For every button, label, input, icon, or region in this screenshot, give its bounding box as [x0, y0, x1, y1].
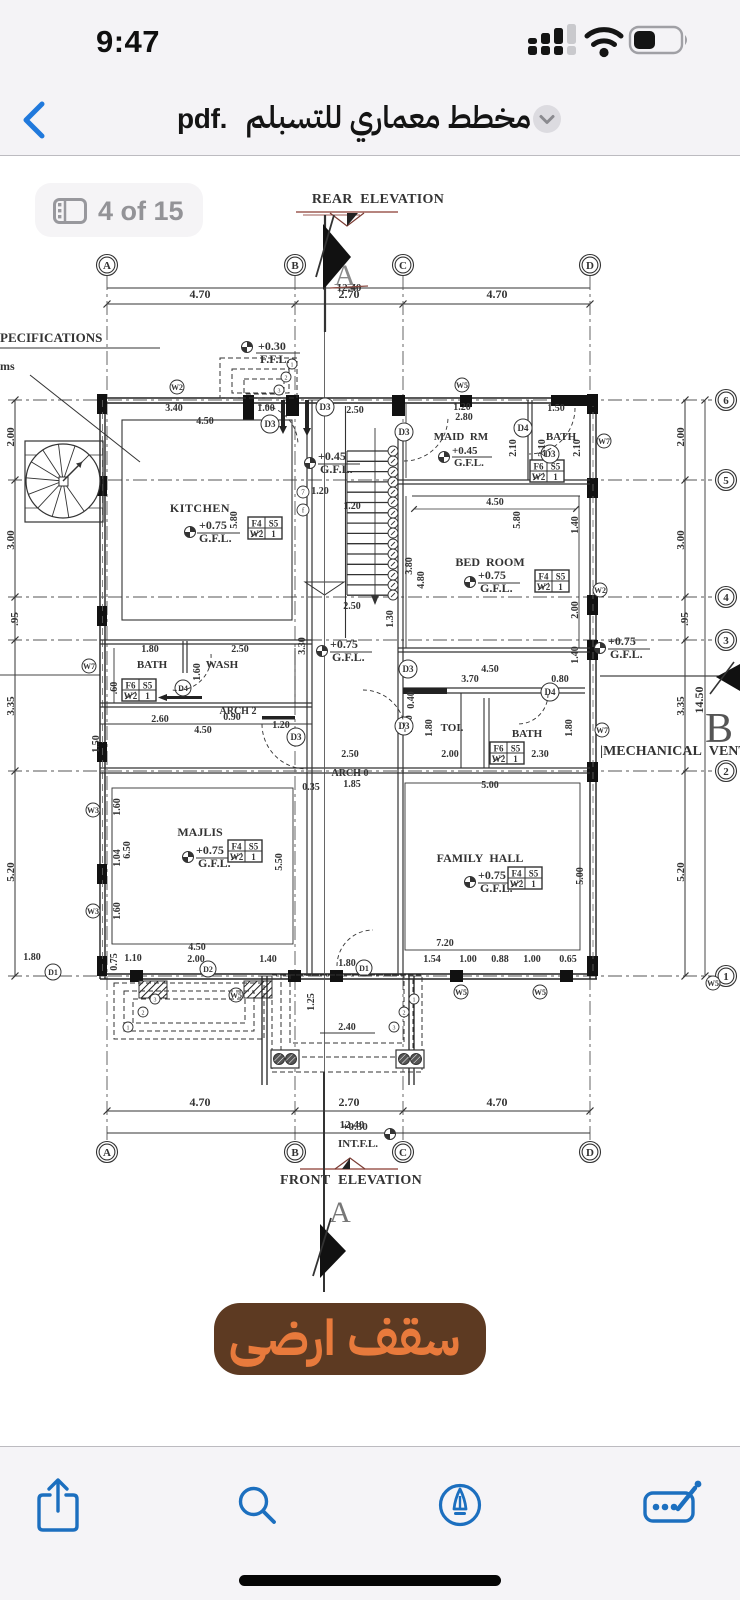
grid bubble 3 right	[716, 630, 737, 651]
columns bottom wall	[130, 970, 143, 982]
svg-text:A: A	[103, 1147, 111, 1159]
interior wall spine left x307	[306, 400, 308, 976]
svg-text:2: 2	[403, 1011, 406, 1017]
door leaf D4 bath	[166, 696, 202, 699]
svg-text:W5: W5	[707, 979, 719, 988]
svg-text:REAR ELEVATION: REAR ELEVATION	[312, 192, 444, 207]
grid bubble 2 right	[716, 761, 737, 782]
svg-text:3: 3	[154, 998, 157, 1004]
svg-text:2.70: 2.70	[339, 287, 360, 301]
svg-text:6: 6	[723, 395, 729, 407]
svg-text:2: 2	[142, 1011, 145, 1017]
svg-text:F4: F4	[539, 572, 549, 582]
svg-text:D4: D4	[545, 687, 556, 697]
svg-text:BATH: BATH	[137, 659, 168, 671]
left porch dashed steps	[114, 983, 264, 1039]
left porch hatched columns	[139, 981, 167, 998]
entry porch columns	[271, 1050, 299, 1068]
maid/bath partition	[527, 400, 529, 480]
grid line 6 horizontal	[8, 399, 712, 401]
svg-text:ms: ms	[0, 359, 15, 373]
grid bubble C bottom	[393, 1142, 414, 1163]
svg-text:1.25: 1.25	[306, 993, 317, 1011]
staircase treads	[347, 450, 397, 452]
svg-text:S5: S5	[249, 842, 259, 852]
section line A bottom	[323, 1072, 325, 1292]
status + navigation bar	[0, 0, 740, 156]
svg-text:ARCH 0: ARCH 0	[332, 768, 369, 779]
svg-text:1.40: 1.40	[259, 954, 277, 965]
spiral leader line	[30, 375, 140, 462]
door bubble D4 mid	[175, 680, 191, 696]
toi/bath top wall	[403, 687, 585, 689]
svg-text:S5: S5	[143, 681, 153, 691]
bedroom bottom wall	[398, 647, 590, 649]
columns right wall	[587, 394, 598, 414]
svg-text:F.F.L.: F.F.L.	[260, 352, 289, 366]
grid line A vertical	[106, 276, 108, 1141]
section arrow B	[716, 664, 740, 691]
svg-text:2.10: 2.10	[572, 439, 583, 457]
svg-text:1.00: 1.00	[459, 954, 477, 965]
svg-text:2.50: 2.50	[341, 749, 359, 760]
svg-text:D1: D1	[48, 968, 58, 977]
svg-text:4.70: 4.70	[487, 1095, 508, 1109]
svg-text:2.80: 2.80	[455, 412, 473, 423]
grid bubble 4 right	[716, 587, 737, 608]
svg-text:3.40: 3.40	[165, 403, 183, 414]
entry porch side walls	[261, 976, 263, 1085]
svg-text:2.50: 2.50	[346, 405, 364, 416]
svg-text:+0.75: +0.75	[330, 637, 358, 651]
markup icon	[437, 1482, 483, 1528]
svg-text:WASH: WASH	[206, 659, 239, 671]
section arrow A top	[323, 224, 351, 290]
svg-text:D3: D3	[265, 419, 276, 429]
svg-text:1.80: 1.80	[141, 644, 159, 655]
svg-text:MAJLIS: MAJLIS	[177, 825, 223, 839]
status icons	[520, 24, 700, 68]
bottom toolbar	[0, 1446, 740, 1600]
right dimension column	[684, 400, 686, 976]
svg-text:2.40: 2.40	[338, 1022, 356, 1033]
grid bubble 1 right	[716, 966, 737, 987]
right landing level	[595, 643, 606, 654]
svg-text:6.50: 6.50	[122, 841, 133, 859]
svg-text:D4: D4	[518, 423, 529, 433]
window bubbles bottom	[229, 988, 243, 1002]
svg-text:1: 1	[271, 529, 276, 539]
svg-text:W2: W2	[171, 383, 183, 392]
svg-text:3.70: 3.70	[461, 674, 479, 685]
grid line 4 horizontal	[8, 596, 712, 598]
grid bubble B bottom	[285, 1142, 306, 1163]
svg-text:B: B	[291, 260, 299, 272]
grid line B vertical	[294, 276, 296, 1141]
bath/wash inner outline	[113, 648, 115, 703]
orange page label badge	[214, 1303, 486, 1375]
page indicator pill 4 of 15	[35, 183, 203, 237]
svg-text:5.80: 5.80	[512, 511, 523, 529]
svg-text:4.70: 4.70	[487, 287, 508, 301]
stair hall level	[305, 458, 316, 469]
svg-text:D: D	[586, 260, 594, 272]
svg-text:C: C	[399, 260, 407, 272]
svg-text:.95: .95	[9, 612, 21, 626]
svg-text:+0.45: +0.45	[452, 445, 478, 457]
svg-text:F4: F4	[252, 519, 262, 529]
bath/wash partition stub	[182, 641, 184, 673]
svg-text:A: A	[103, 260, 111, 272]
svg-text:1.20: 1.20	[343, 501, 361, 512]
spiral staircase	[26, 444, 100, 518]
svg-text:+0.45: +0.45	[318, 449, 346, 463]
grid bubble C top	[393, 255, 414, 276]
bedroom inner side lines	[405, 496, 407, 648]
rear steps numbers	[287, 359, 297, 369]
window bubbles top	[170, 380, 184, 394]
svg-text:D4: D4	[178, 684, 188, 693]
svg-text:5.20: 5.20	[5, 862, 17, 882]
FFL level top	[242, 342, 253, 353]
door jamb leaf top B	[281, 400, 285, 428]
svg-text:1.50: 1.50	[91, 735, 102, 753]
svg-text:BED ROOM: BED ROOM	[455, 555, 524, 569]
svg-text:1.20: 1.20	[311, 486, 329, 497]
exterior wall top	[100, 397, 597, 399]
svg-text:1.50: 1.50	[547, 403, 565, 414]
right overall dim line 14.50	[704, 400, 706, 976]
svg-text:1: 1	[558, 582, 563, 592]
svg-text:5.80: 5.80	[229, 511, 240, 529]
share icon	[36, 1477, 80, 1533]
section line B right	[600, 675, 719, 677]
svg-text:1.80: 1.80	[338, 958, 356, 969]
svg-text:0.90: 0.90	[223, 712, 241, 723]
svg-text:1.30: 1.30	[385, 610, 396, 628]
svg-text:1.85: 1.85	[343, 779, 361, 790]
svg-text:3.35: 3.35	[675, 696, 687, 716]
svg-text:D2: D2	[203, 965, 213, 974]
svg-text:4.50: 4.50	[194, 725, 212, 736]
svg-text:W7: W7	[83, 662, 95, 671]
svg-text:TOI.: TOI.	[441, 722, 464, 734]
svg-text:FRONT ELEVATION: FRONT ELEVATION	[280, 1173, 422, 1188]
grid line 1 horizontal	[8, 975, 712, 977]
svg-text:12.40: 12.40	[340, 1119, 365, 1131]
svg-text:.60: .60	[109, 682, 120, 695]
svg-text:3.00: 3.00	[675, 530, 687, 550]
svg-text:INT.F.L.: INT.F.L.	[338, 1138, 378, 1150]
interior wall spine right x398	[397, 430, 399, 976]
back chevron	[18, 100, 52, 140]
svg-text:1: 1	[553, 472, 558, 482]
svg-text:5.20: 5.20	[675, 862, 687, 882]
svg-text:G.F.L.: G.F.L.	[454, 457, 484, 469]
svg-text:MAID RM: MAID RM	[434, 431, 489, 443]
battery	[630, 27, 682, 53]
cellular bars	[528, 28, 563, 55]
svg-text:D3: D3	[320, 402, 331, 412]
svg-text:1.40: 1.40	[570, 516, 581, 534]
grid bubble A top	[97, 255, 118, 276]
arch wall grid2	[100, 767, 590, 769]
svg-text:S5: S5	[529, 869, 539, 879]
grid line 3 horizontal	[8, 639, 712, 641]
svg-text:D3: D3	[291, 732, 302, 742]
columns top wall	[243, 395, 254, 420]
section line A through plan	[324, 332, 326, 1072]
svg-text:3.80: 3.80	[404, 557, 415, 575]
svg-text:1: 1	[291, 363, 294, 369]
svg-text:2: 2	[285, 376, 288, 382]
staircase step circles	[388, 446, 398, 456]
svg-text:4.50: 4.50	[196, 416, 214, 427]
svg-text:4.50: 4.50	[188, 942, 206, 953]
toi/bath inner wall	[483, 698, 485, 768]
bath/wash bottom wall	[100, 702, 312, 704]
svg-text:F6: F6	[126, 681, 136, 691]
left dimension column	[14, 400, 16, 976]
svg-text:.95: .95	[679, 612, 691, 626]
svg-text:+0.75: +0.75	[608, 634, 636, 648]
title dropdown chevron	[531, 103, 563, 135]
svg-text:W7: W7	[596, 726, 608, 735]
staircase side walls	[345, 406, 347, 638]
svg-text:W5: W5	[455, 988, 467, 997]
svg-text:BATH: BATH	[512, 728, 543, 740]
svg-text:2.50: 2.50	[231, 644, 249, 655]
svg-text:B: B	[291, 1147, 299, 1159]
svg-text:4.50: 4.50	[486, 497, 504, 508]
svg-text:D: D	[586, 1147, 594, 1159]
svg-text:1.20: 1.20	[272, 720, 290, 731]
door bubbles top	[261, 415, 279, 433]
stair left circle column	[297, 486, 309, 498]
svg-text:FAMILY HALL: FAMILY HALL	[437, 851, 524, 865]
svg-text:0.40: 0.40	[406, 691, 417, 709]
svg-text:2.00: 2.00	[441, 749, 459, 760]
svg-text:4.50: 4.50	[481, 664, 499, 675]
svg-text:3.00: 3.00	[5, 530, 17, 550]
svg-text:2.30: 2.30	[531, 749, 549, 760]
svg-text:W5: W5	[456, 381, 468, 390]
svg-text:1.80: 1.80	[424, 719, 435, 737]
svg-text:D3: D3	[399, 427, 410, 437]
columns left wall	[97, 394, 107, 414]
wifi	[587, 30, 621, 45]
svg-text:5.00: 5.00	[575, 867, 586, 885]
svg-text:1.80: 1.80	[23, 952, 41, 963]
door arc maid	[404, 417, 448, 461]
wall centerlines dashed	[102, 400, 104, 976]
svg-text:F6: F6	[534, 462, 544, 472]
title: pdf + arabic paths	[177, 103, 227, 135]
svg-text:F6: F6	[494, 744, 504, 754]
svg-text:3: 3	[393, 1026, 396, 1032]
svg-text:+0.75: +0.75	[196, 843, 224, 857]
svg-text:D1: D1	[359, 964, 369, 973]
svg-text:+0.75: +0.75	[478, 568, 506, 582]
svg-text:2.60: 2.60	[151, 714, 169, 725]
rear elevation datum triangle	[330, 213, 364, 226]
exterior wall bottom	[100, 973, 597, 975]
svg-text:1.40: 1.40	[570, 646, 581, 664]
home indicator	[239, 1575, 501, 1586]
spiral staircase box	[25, 441, 103, 522]
svg-text:S5: S5	[269, 519, 279, 529]
bottom total dim line	[107, 1132, 590, 1134]
svg-text:W3: W3	[87, 907, 99, 916]
svg-text:0.35: 0.35	[302, 782, 320, 793]
svg-text:5.00: 5.00	[481, 780, 499, 791]
svg-text:7: 7	[301, 489, 305, 497]
door arc kitchen	[258, 405, 298, 445]
maid room wall	[398, 479, 590, 481]
svg-text:F4: F4	[232, 842, 242, 852]
svg-text:|MECHANICAL VENTI: |MECHANICAL VENTI	[600, 744, 740, 759]
door arc bath low	[518, 694, 548, 724]
svg-text:3: 3	[278, 389, 281, 395]
svg-text:2.10: 2.10	[537, 439, 548, 457]
grid bubble B top	[285, 255, 306, 276]
exterior wall left	[99, 398, 101, 979]
kitchen bottom wall	[100, 639, 312, 641]
svg-text:PECIFICATIONS: PECIFICATIONS	[0, 330, 102, 345]
svg-text:1.60: 1.60	[192, 663, 203, 681]
majlis inner outline	[112, 788, 293, 944]
svg-text:1.60: 1.60	[112, 902, 123, 920]
svg-text:3.30: 3.30	[297, 637, 308, 655]
grid line D vertical	[589, 276, 591, 1141]
exterior wall right	[589, 398, 591, 979]
family hall inner outline	[405, 783, 580, 950]
svg-text:2.50: 2.50	[343, 601, 361, 612]
bottom dimension line	[107, 1110, 590, 1112]
svg-text:W2: W2	[594, 586, 606, 595]
svg-text:W7: W7	[598, 437, 610, 446]
svg-text:1.04: 1.04	[112, 849, 123, 867]
svg-text:S5: S5	[511, 744, 521, 754]
bedroom top inner line	[412, 495, 580, 497]
grid bubble A bottom	[97, 1142, 118, 1163]
toi wall dark stub	[403, 688, 447, 694]
grid bubble D top	[580, 255, 601, 276]
rear elevation red underline	[296, 211, 398, 213]
door jamb leaf stair	[305, 400, 309, 430]
svg-text:4: 4	[723, 592, 729, 604]
svg-text:2.00: 2.00	[5, 427, 17, 447]
signature icon	[642, 1478, 704, 1528]
svg-text:W3: W3	[87, 806, 99, 815]
svg-text:7.20: 7.20	[436, 938, 454, 949]
door arc toi	[363, 690, 405, 732]
svg-text:1: 1	[413, 998, 416, 1004]
svg-text:1.10: 1.10	[124, 953, 142, 964]
svg-text:0.75: 0.75	[109, 953, 120, 971]
door leaf D3 arch2	[262, 716, 295, 720]
entry porch dashed rects	[272, 975, 422, 1072]
svg-text:0.65: 0.65	[559, 954, 577, 965]
svg-text:D3: D3	[403, 664, 414, 674]
svg-text:1.60: 1.60	[112, 798, 123, 816]
svg-text:0.88: 0.88	[491, 954, 509, 965]
maid room inner line	[405, 404, 407, 478]
grid line C vertical	[402, 276, 404, 1141]
svg-text:3.35: 3.35	[5, 696, 17, 716]
section arrow A bottom	[320, 1224, 346, 1278]
toi partition	[460, 693, 462, 768]
svg-text:1.54: 1.54	[423, 954, 441, 965]
svg-text:5: 5	[723, 475, 729, 487]
svg-text:1: 1	[251, 852, 256, 862]
section line B left stub	[0, 674, 100, 676]
door arc majlis	[262, 724, 307, 769]
svg-text:14.50: 14.50	[692, 687, 706, 714]
grid bubble 6 right	[716, 390, 737, 411]
svg-text:2: 2	[723, 766, 729, 778]
svg-text:4.70: 4.70	[190, 1095, 211, 1109]
svg-text:4.70: 4.70	[190, 287, 211, 301]
rear steps dashed rects	[220, 358, 297, 398]
kitchen inner outline	[122, 420, 292, 620]
svg-text:W5: W5	[534, 988, 546, 997]
grid line 5 horizontal	[8, 479, 712, 481]
svg-text:2.00: 2.00	[675, 427, 687, 447]
svg-text:1: 1	[531, 879, 536, 889]
grid bubble 5 right	[716, 470, 737, 491]
door arc bath mid	[172, 654, 211, 690]
svg-text:1: 1	[513, 754, 518, 764]
grid line 2 horizontal	[8, 770, 712, 772]
svg-text:+0.30: +0.30	[258, 339, 286, 353]
search icon	[236, 1484, 280, 1528]
svg-text:KITCHEN: KITCHEN	[170, 501, 230, 515]
stair arrow	[374, 428, 376, 598]
svg-text:+0.75: +0.75	[478, 868, 506, 882]
front elevation red line	[300, 1168, 398, 1170]
svg-text:1: 1	[145, 691, 150, 701]
svg-text:4.80: 4.80	[416, 571, 427, 589]
overall dim 12.40 top	[107, 287, 590, 289]
door arc D1 bottom	[337, 930, 373, 966]
svg-text:2.00: 2.00	[570, 601, 581, 619]
svg-text:2.10: 2.10	[508, 439, 519, 457]
svg-text:1: 1	[127, 1026, 130, 1032]
status time	[68, 24, 188, 60]
svg-text:1.80: 1.80	[564, 719, 575, 737]
svg-text:F4: F4	[512, 869, 522, 879]
stair break triangle	[305, 582, 344, 595]
top dimension line	[107, 303, 590, 305]
svg-text:C: C	[399, 1147, 407, 1159]
svg-text:3: 3	[723, 635, 729, 647]
svg-text:A: A	[329, 1196, 351, 1229]
door arc maid2	[529, 408, 575, 454]
svg-text:S5: S5	[556, 572, 566, 582]
svg-text:5.50: 5.50	[274, 853, 285, 871]
door bubble D3 toi	[399, 660, 417, 678]
svg-text:+0.75: +0.75	[199, 518, 227, 532]
svg-text:1.00: 1.00	[523, 954, 541, 965]
section line A top	[324, 215, 326, 332]
mid landing level	[317, 646, 328, 657]
svg-text:1: 1	[723, 971, 729, 983]
svg-text:2.70: 2.70	[339, 1095, 360, 1109]
majlis top wall	[100, 723, 312, 725]
grid bubble D bottom	[580, 1142, 601, 1163]
